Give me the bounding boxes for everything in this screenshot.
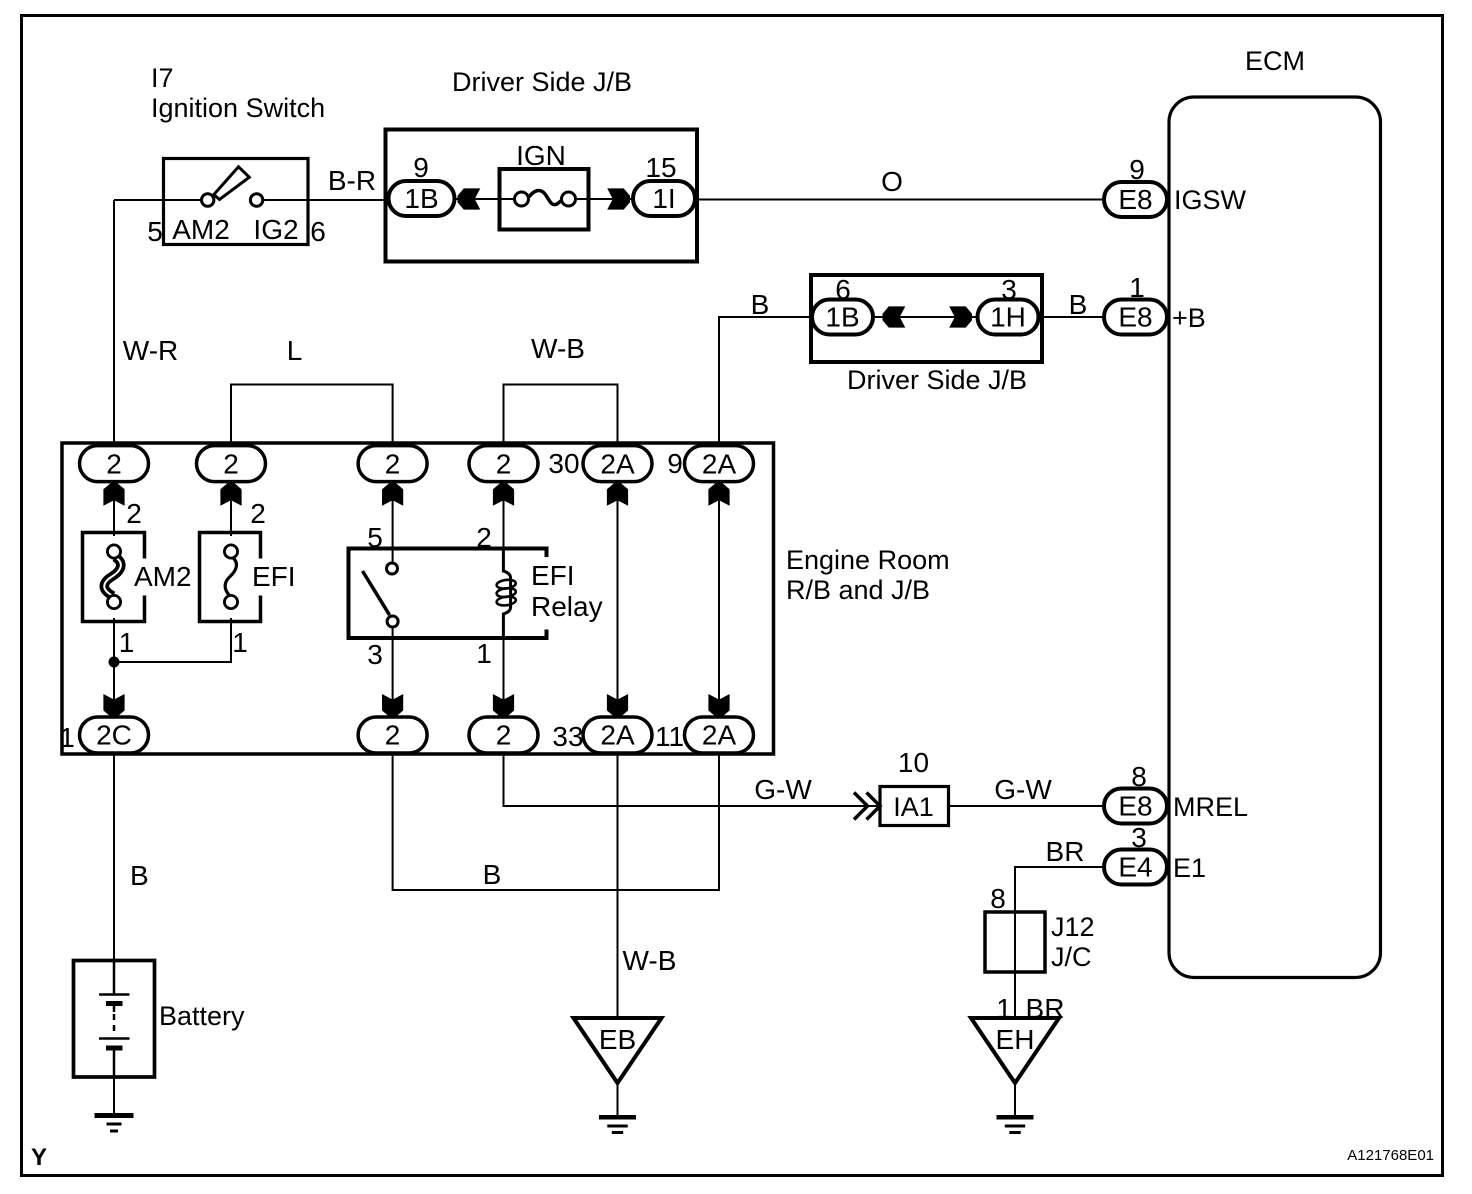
svg-text:G-W: G-W [994, 774, 1052, 805]
svg-text:2: 2 [476, 522, 492, 553]
svg-text:EH: EH [996, 1024, 1035, 1055]
svg-text:+B: +B [1172, 303, 1206, 333]
svg-text:3: 3 [367, 639, 383, 670]
svg-text:2A: 2A [600, 448, 635, 479]
svg-text:J12: J12 [1051, 912, 1095, 942]
svg-text:5: 5 [147, 216, 163, 247]
svg-text:E8: E8 [1118, 791, 1152, 822]
svg-text:E4: E4 [1118, 852, 1152, 883]
svg-text:1B: 1B [404, 183, 438, 214]
svg-text:L: L [287, 335, 303, 366]
svg-text:15: 15 [645, 152, 676, 183]
svg-text:W-R: W-R [123, 335, 178, 366]
svg-text:1: 1 [476, 638, 492, 669]
svg-text:Ignition Switch: Ignition Switch [151, 93, 325, 123]
svg-text:EB: EB [599, 1024, 636, 1055]
svg-text:6: 6 [310, 216, 326, 247]
svg-text:Engine Room: Engine Room [786, 545, 950, 575]
svg-text:1: 1 [1129, 272, 1145, 303]
svg-text:EFI: EFI [531, 560, 575, 591]
svg-text:EFI: EFI [252, 561, 296, 592]
svg-text:BR: BR [1046, 836, 1085, 867]
svg-text:3: 3 [1001, 274, 1017, 305]
svg-text:W-B: W-B [623, 945, 677, 976]
svg-text:2: 2 [385, 448, 401, 479]
svg-text:B: B [751, 289, 770, 320]
svg-text:10: 10 [898, 747, 929, 778]
svg-text:W-B: W-B [531, 333, 585, 364]
svg-text:Y: Y [31, 1144, 47, 1171]
svg-text:5: 5 [367, 522, 383, 553]
svg-text:MREL: MREL [1173, 792, 1248, 822]
svg-text:R/B and J/B: R/B and J/B [786, 575, 930, 605]
svg-text:9: 9 [667, 448, 683, 479]
svg-text:9: 9 [413, 152, 429, 183]
svg-text:1: 1 [119, 627, 135, 658]
svg-text:IA1: IA1 [893, 792, 934, 822]
svg-text:IGSW: IGSW [1174, 185, 1247, 215]
svg-text:J/C: J/C [1051, 942, 1092, 972]
svg-text:O: O [881, 166, 903, 197]
svg-text:11: 11 [655, 721, 684, 752]
svg-text:Battery: Battery [159, 1001, 245, 1031]
svg-text:2C: 2C [96, 720, 132, 751]
svg-text:1I: 1I [652, 183, 675, 214]
svg-text:IG2: IG2 [253, 214, 298, 245]
svg-text:33: 33 [552, 721, 583, 752]
svg-text:E8: E8 [1118, 184, 1152, 215]
svg-text:I7: I7 [151, 63, 174, 93]
svg-text:2: 2 [385, 720, 401, 751]
svg-text:E1: E1 [1173, 853, 1206, 883]
svg-text:IGN: IGN [516, 140, 566, 171]
svg-text:2: 2 [106, 448, 122, 479]
svg-text:8: 8 [1131, 761, 1147, 792]
svg-text:1: 1 [59, 722, 75, 753]
svg-text:E8: E8 [1118, 302, 1152, 333]
svg-text:6: 6 [835, 274, 851, 305]
svg-text:B: B [130, 860, 149, 891]
svg-text:2: 2 [126, 498, 142, 529]
svg-text:1: 1 [232, 627, 248, 658]
svg-text:2A: 2A [600, 720, 635, 751]
svg-text:8: 8 [990, 883, 1006, 914]
svg-text:1H: 1H [990, 302, 1026, 333]
svg-text:2A: 2A [702, 720, 737, 751]
svg-text:Driver Side J/B: Driver Side J/B [847, 365, 1027, 395]
svg-text:2: 2 [250, 498, 266, 529]
svg-text:B: B [483, 859, 502, 890]
svg-text:9: 9 [1129, 154, 1145, 185]
svg-text:A121768E01: A121768E01 [1347, 1147, 1434, 1164]
svg-text:B: B [1069, 289, 1088, 320]
svg-text:3: 3 [1131, 822, 1147, 853]
svg-text:AM2: AM2 [172, 214, 230, 245]
svg-text:2A: 2A [702, 448, 737, 479]
svg-text:30: 30 [548, 448, 579, 479]
svg-text:Driver Side J/B: Driver Side J/B [452, 67, 632, 97]
svg-text:2: 2 [223, 448, 239, 479]
svg-text:Relay: Relay [531, 591, 603, 622]
svg-text:2: 2 [496, 720, 512, 751]
svg-text:2: 2 [496, 448, 512, 479]
svg-text:G-W: G-W [754, 774, 812, 805]
svg-text:B-R: B-R [328, 165, 376, 196]
svg-text:AM2: AM2 [134, 561, 192, 592]
svg-text:ECM: ECM [1245, 46, 1305, 76]
svg-text:1B: 1B [825, 302, 859, 333]
